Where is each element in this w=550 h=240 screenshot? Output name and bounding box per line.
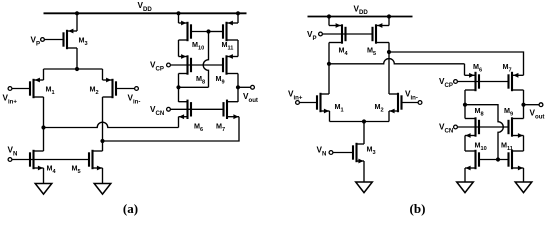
label Vin+ (b) <box>288 90 303 102</box>
wire M5 drain down (b) <box>388 43 390 53</box>
label M9 (b) <box>504 106 513 117</box>
wire drain node to mirror gates (b) <box>465 105 503 160</box>
label M6 <box>194 122 203 133</box>
node mirror gate junction <box>206 29 210 33</box>
wire M5 source to ground <box>102 168 104 184</box>
node VDD-M5 junction (b) <box>387 14 391 18</box>
wire M1 drain to M4 drain <box>43 97 45 151</box>
wire mirror gate vertical with hop <box>203 32 208 88</box>
terminal VP (a) <box>41 38 45 42</box>
transistor M6 (PMOS cascode, b) <box>465 72 480 91</box>
label VP (b) <box>307 30 317 42</box>
transistor M7 (PMOS cascode, b) <box>509 72 524 91</box>
wire VCP gate row (b) <box>458 81 509 83</box>
terminal Vin- (a) <box>135 87 139 91</box>
wire tail to M3 (b) <box>363 122 365 145</box>
label M2 <box>90 85 99 96</box>
ground under M5 <box>94 184 111 195</box>
node VDD-M3 junction <box>75 11 79 15</box>
terminal VCP (a) <box>167 63 171 67</box>
label VCP (b) <box>439 77 453 89</box>
node M1-M4 drain junction <box>41 125 45 129</box>
transistor M4 (PMOS load, b) <box>329 23 346 44</box>
wire M4 source to ground <box>43 168 45 184</box>
wire VP gate row (b) <box>323 33 373 35</box>
node mirror gate junction (b) <box>496 157 500 161</box>
node VDD-M11 junction <box>236 11 240 15</box>
transistor M8 (NMOS cascode, b) <box>465 117 479 138</box>
wire M7 drain to Vout node (b) <box>523 90 525 105</box>
wire drain node to mirror gates <box>179 86 209 88</box>
ground under M4 <box>35 184 52 195</box>
node M2-M5 drain junction <box>100 139 104 143</box>
terminal VCN (b) <box>454 125 458 129</box>
label M2 (b) <box>375 102 384 113</box>
transistor M10 (NMOS mirror, b) <box>465 150 479 171</box>
wire M6 drain down (b) <box>464 90 466 119</box>
wire M11 drain to M9 <box>237 40 239 57</box>
wire Vout node to M9 drain (b) <box>523 105 525 119</box>
wire VCP gate row <box>171 64 223 66</box>
label Vout (a) <box>243 92 258 104</box>
label VCN (b) <box>439 123 453 135</box>
wire M5 drain to M7 source (b) <box>389 52 524 75</box>
wire VCN gate row (b) <box>458 126 509 128</box>
wire VDD to M11 <box>237 13 239 23</box>
node VDD-M10 junction <box>176 11 180 15</box>
transistor M10 (PMOS mirror) <box>179 21 192 42</box>
label M9 <box>216 74 225 85</box>
label M3 <box>79 36 88 47</box>
transistor M9 (PMOS cascode) <box>223 54 238 75</box>
wire M8 source to M10 (b) <box>464 136 466 152</box>
wire Vin+ to M1 gate <box>12 88 30 90</box>
power rail VDD (a) <box>44 12 247 14</box>
wire Vout stub (b) <box>524 104 539 106</box>
node Vout junction (b) <box>521 103 525 107</box>
wire VDD to M10 <box>178 13 180 23</box>
label M1 <box>46 85 55 96</box>
label M11 <box>222 40 234 51</box>
terminal Vin+ (a) <box>8 87 12 91</box>
wire M9 source to M11 (b) <box>523 136 525 152</box>
transistor M8 (PMOS cascode) <box>179 54 192 75</box>
wire VP to M3 gate <box>45 39 64 41</box>
label M1 (b) <box>335 102 344 113</box>
label VDD (b) <box>354 4 369 16</box>
transistor M2 (NMOS input-, b) <box>389 93 402 114</box>
node M8-M6 drain junction <box>176 85 180 89</box>
wire fold right <box>103 117 240 141</box>
wire VDD to M5 (b) <box>388 17 390 26</box>
terminal VN (b) <box>329 151 333 155</box>
transistor M7 (NMOS cascode) <box>224 100 240 120</box>
wire VN to M3 gate (b) <box>333 152 353 154</box>
terminal VP (b) <box>319 32 323 36</box>
transistor M5 (PMOS load, b) <box>373 23 390 44</box>
transistor M5 (NMOS sink) <box>89 150 103 171</box>
label VCN (a) <box>150 105 164 117</box>
label M4 (b) <box>339 46 349 57</box>
wire M2 drain vertical (b) <box>388 52 390 94</box>
label VDD (a) <box>138 1 153 13</box>
label M6 (b) <box>473 62 482 73</box>
wire fold left riser to M6 <box>178 117 180 128</box>
label M10 <box>192 40 204 51</box>
label M5 (b) <box>367 46 376 57</box>
label VP (a) <box>31 36 41 48</box>
label VN (b) <box>317 146 327 158</box>
label M4 <box>47 164 57 175</box>
wire M3 source to ground (b) <box>363 161 365 182</box>
label VN (a) <box>8 146 18 158</box>
transistor M3 (PMOS tail) <box>64 29 78 50</box>
wire node to M11 gate <box>209 31 224 33</box>
wire tail node horizontal <box>44 68 103 70</box>
ground under M11 (b) <box>515 182 532 193</box>
wire Vout node to M7 drain <box>237 87 239 102</box>
ground under M10 (b) <box>457 182 474 193</box>
wire M2 source to tail (b) <box>388 111 390 122</box>
wire M3 source down <box>76 48 78 69</box>
wire M10 source to ground (b) <box>464 168 466 182</box>
wire Vin- to M2 gate (b) <box>402 102 418 104</box>
wire M10 drain to M8 <box>178 40 180 57</box>
wire fold left with hop <box>44 122 179 127</box>
wire VN gate row <box>12 159 89 161</box>
wire VDD to M4 (b) <box>328 17 330 26</box>
terminal VCP (b) <box>454 80 458 84</box>
label M3 (b) <box>367 145 376 156</box>
label Vin- (b) <box>405 90 418 102</box>
power rail VDD (b) <box>308 16 413 18</box>
label M8 <box>196 74 205 85</box>
wire M3 drain to VDD <box>76 13 78 31</box>
wire M10 gate to node <box>191 31 209 33</box>
wire fold riser to M6 (b) <box>464 64 466 76</box>
label Vout (b) <box>530 109 545 121</box>
label VCP (a) <box>150 61 164 73</box>
label M7 <box>216 122 225 133</box>
wire M8 drain to M6 drain <box>178 74 180 102</box>
transistor M6 (NMOS cascode) <box>179 100 192 120</box>
label M7 (b) <box>503 62 512 73</box>
wire VCN gate row <box>170 108 223 110</box>
node M5-M2 drain junction (b) <box>387 50 391 54</box>
wire M1 drain vertical (b) <box>328 64 330 94</box>
wire Vout stub (a) <box>238 86 250 88</box>
wire tail to M2 <box>102 69 104 80</box>
transistor M3 (NMOS tail, b) <box>353 143 364 164</box>
svg-text:(b): (b) <box>410 201 426 216</box>
label M8 (b) <box>475 106 484 117</box>
node tail junction (b) <box>362 119 366 123</box>
wire M4 drain to M6 source with hop (b) <box>329 59 465 64</box>
node Vout junction (a) <box>236 85 240 89</box>
transistor M11 (PMOS mirror) <box>223 21 238 42</box>
terminal Vout (a) <box>251 85 255 89</box>
node VDD-M4 junction (b) <box>327 14 331 18</box>
svg-text:(a): (a) <box>123 201 138 216</box>
transistor M9 (NMOS cascode, b) <box>509 117 524 138</box>
wire mirror gate row (b) <box>479 159 509 161</box>
wire tail to M1 <box>43 69 45 80</box>
terminal Vin+ (b) <box>296 101 300 105</box>
wire M2 drain to M5 drain <box>102 97 104 151</box>
label Vin- (a) <box>128 94 141 106</box>
node tail junction <box>75 67 79 71</box>
terminal Vout (b) <box>539 103 543 107</box>
wire M4 drain down (b) <box>328 43 330 64</box>
wire Vin- to M2 gate <box>116 88 134 90</box>
transistor M4 (NMOS sink) <box>30 150 44 171</box>
label M5 <box>72 164 81 175</box>
wire M1 source to tail (b) <box>329 111 331 122</box>
transistor M1 (NMOS input+, b) <box>317 93 330 114</box>
transistor M1 (PMOS input+) <box>30 78 44 99</box>
terminal Vin- (b) <box>418 101 422 105</box>
terminal VCN (a) <box>167 107 171 111</box>
label Vin+ (a) <box>3 94 18 106</box>
terminal VN (a) <box>8 158 12 162</box>
label M10 (b) <box>475 141 487 152</box>
transistor M2 (PMOS input-) <box>103 78 117 99</box>
wire M11 source to ground (b) <box>523 168 525 182</box>
ground under M3 (b) <box>356 182 373 193</box>
wire Vin+ to M1 gate (b) <box>300 102 317 104</box>
node M6-M8 drain junction (b) <box>463 103 467 107</box>
caption (b) <box>410 201 426 216</box>
label M11 (b) <box>501 141 513 152</box>
node M4-M1 drain junction (b) <box>327 62 331 66</box>
wire M9 drain to Vout node <box>237 74 239 88</box>
wire tail rail (b) <box>330 121 390 123</box>
transistor M11 (NMOS mirror, b) <box>509 150 524 171</box>
caption (a) <box>123 201 138 216</box>
